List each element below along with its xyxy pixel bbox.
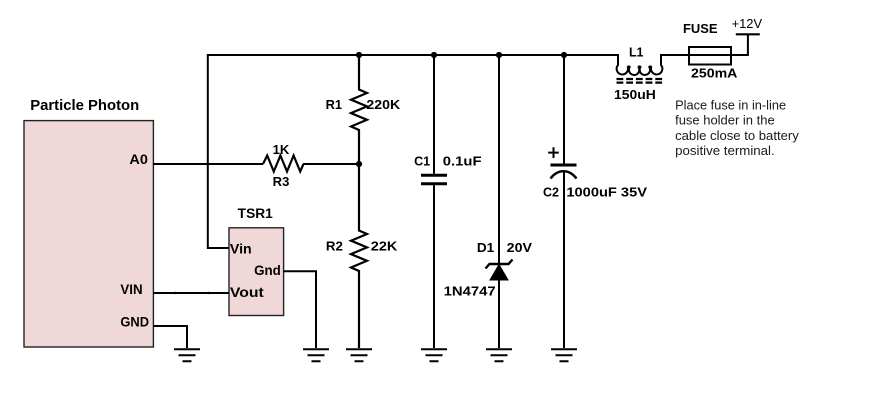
power +12V terminal (732, 17, 763, 34)
node junction R1 top (356, 52, 362, 58)
svg-text:0.1uF: 0.1uF (443, 155, 482, 169)
zener diode D1 1N4747 20V (444, 55, 533, 348)
svg-text:fuse holder in the: fuse holder in the (675, 113, 775, 128)
svg-text:220K: 220K (366, 98, 400, 112)
resistor R3 1K (263, 143, 304, 189)
svg-text:D1: D1 (477, 241, 494, 255)
svg-text:R1: R1 (326, 98, 342, 112)
svg-text:+12V: +12V (732, 17, 763, 31)
wire Vout to VIN (153, 292, 229, 294)
ground under C1 (421, 349, 447, 361)
note text (675, 97, 799, 158)
ground under D1 (486, 349, 512, 361)
svg-text:R2: R2 (326, 240, 343, 254)
wire R3 to node (303, 163, 359, 165)
ground under R2 (346, 349, 372, 361)
svg-text:22K: 22K (371, 240, 398, 254)
svg-text:FUSE: FUSE (683, 22, 718, 36)
svg-text:Vout: Vout (230, 285, 265, 300)
node junction D1 top (496, 52, 502, 58)
IC TSR1 regulator box (229, 206, 284, 316)
svg-text:1K: 1K (273, 143, 290, 157)
svg-text:VIN: VIN (120, 282, 142, 297)
svg-text:positive terminal.: positive terminal. (675, 143, 775, 158)
svg-text:C1: C1 (414, 155, 430, 169)
fuse F1 250mA (683, 22, 737, 81)
wire top bus and branch to TSR1 Vin (208, 55, 618, 248)
ground under TSR1 (303, 349, 329, 361)
svg-text:Vin: Vin (230, 242, 252, 257)
svg-text:cable close to battery: cable close to battery (675, 128, 799, 143)
inductor L1 150uH (614, 46, 663, 103)
svg-text:150uH: 150uH (614, 88, 656, 102)
svg-text:Gnd: Gnd (254, 263, 281, 278)
svg-text:Place fuse in in-line: Place fuse in in-line (675, 97, 786, 112)
node junction C2 top (561, 52, 567, 58)
junction mark small (174, 292, 176, 294)
capacitor C1 0.1uF (414, 55, 482, 348)
ground under C2 (551, 349, 577, 361)
svg-text:C2: C2 (543, 186, 559, 200)
svg-text:L1: L1 (629, 46, 644, 60)
node junction C1 top (431, 52, 437, 58)
IC U1 Particle Photon box (24, 97, 153, 347)
svg-text:GND: GND (120, 315, 149, 330)
ground under GND pin (174, 349, 200, 361)
svg-text:A0: A0 (129, 152, 148, 167)
svg-text:1N4747: 1N4747 (444, 285, 496, 299)
resistor R2 22K (326, 164, 397, 348)
svg-text:250mA: 250mA (691, 67, 737, 81)
svg-text:R3: R3 (273, 175, 290, 189)
wire A0 to R3 (153, 163, 263, 165)
svg-text:Particle Photon: Particle Photon (30, 97, 139, 114)
junction mark small (207, 292, 209, 294)
capacitor C2 1000uF 35V polarized (543, 55, 648, 348)
resistor R1 220K (326, 55, 401, 164)
svg-text:1000uF 35V: 1000uF 35V (566, 186, 647, 200)
svg-text:20V: 20V (507, 241, 533, 255)
wire bus through fuse to +12V riser (661, 35, 748, 55)
svg-text:TSR1: TSR1 (238, 206, 274, 221)
wire TSR1 Gnd to ground (284, 271, 316, 348)
wire GND pin to ground (153, 326, 187, 348)
node junction A0 R1 R2 (356, 161, 362, 167)
